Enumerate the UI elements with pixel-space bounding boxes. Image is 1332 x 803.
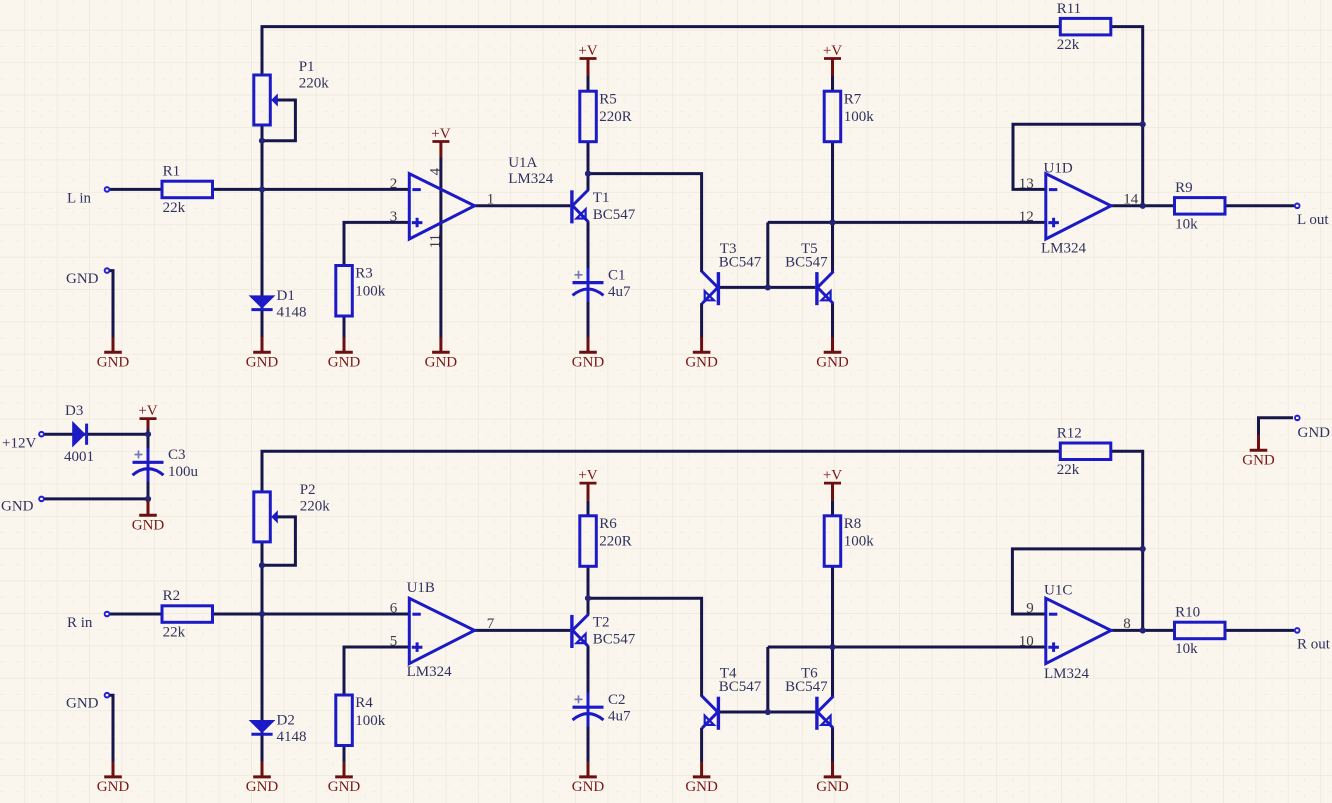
svg-text:7: 7 [487,616,495,632]
capacitor C3 [133,447,199,482]
wire rail L [262,27,1060,75]
ground [1242,435,1275,469]
ground [328,337,361,371]
svg-text:GND: GND [1298,425,1331,441]
wire [213,188,410,191]
diode D2 [249,713,307,745]
svg-text:GND: GND [246,779,279,795]
svg-text:10k: 10k [1175,216,1198,232]
svg-text:9: 9 [1026,600,1034,616]
svg-text:GND: GND [816,779,849,795]
wire [1111,451,1143,630]
svg-text:22k: 22k [163,625,186,641]
node junction [1140,627,1146,633]
wire [1259,418,1294,436]
wire feedback [1013,124,1143,189]
wire [768,646,1046,649]
op-amp U1A [390,155,554,239]
resistor R5 [580,91,632,142]
svg-text:6: 6 [390,600,398,616]
transistor T4 [702,665,762,729]
node junction [259,562,265,568]
node junction [259,138,265,144]
svg-text:+12V: +12V [2,436,36,452]
svg-text:22k: 22k [1057,37,1080,53]
svg-text:8: 8 [1123,616,1131,632]
node junction [585,595,591,601]
svg-text:R3: R3 [355,266,373,282]
ground [685,762,718,796]
transistor T3 [702,241,762,305]
svg-text:L in: L in [67,191,92,207]
transistor T1 [572,190,636,224]
svg-text:4148: 4148 [277,729,307,745]
svg-text:100k: 100k [844,109,875,125]
svg-text:14: 14 [1123,191,1139,207]
svg-text:4001: 4001 [64,449,94,465]
svg-text:22k: 22k [1057,462,1080,478]
supply +V [823,468,842,501]
resistor R3 [336,266,386,317]
svg-text:4u7: 4u7 [608,284,631,300]
svg-text:12: 12 [1019,209,1034,225]
wire [1111,27,1143,206]
svg-text:T2: T2 [593,614,610,630]
node junction [145,496,151,502]
node junction [145,431,151,437]
supply +V [578,468,597,501]
svg-text:220k: 220k [300,498,331,514]
svg-text:4: 4 [427,167,443,175]
svg-text:10: 10 [1019,633,1034,649]
svg-text:U1A: U1A [508,155,537,171]
wire [831,728,834,762]
wire rail R [262,451,1060,492]
ground [246,762,279,796]
wire [831,142,834,272]
wire [110,271,114,338]
svg-text:22k: 22k [163,200,186,216]
svg-text:R out: R out [1297,637,1331,653]
svg-text:5: 5 [390,633,398,649]
wire [343,316,346,337]
node junction [259,186,265,192]
node junction [1140,203,1146,209]
wire [344,647,409,695]
resistor R1 [162,164,213,216]
diode D1 [249,288,307,320]
ground [685,337,718,371]
svg-text:GND: GND [685,779,718,795]
svg-text:P1: P1 [299,59,315,75]
wire [700,303,703,337]
svg-text:100k: 100k [355,713,386,729]
svg-text:220k: 220k [299,76,330,92]
svg-text:LM324: LM324 [508,171,554,187]
wire [110,695,114,762]
wire [766,222,769,287]
node junction [259,611,265,617]
wire [588,174,702,273]
wire L in [110,188,162,191]
wire [587,646,590,762]
node junction [765,284,771,290]
svg-text:GND: GND [246,355,279,371]
svg-text:GND: GND [97,355,130,371]
node junction [585,171,591,177]
wire wiper loop [264,517,296,565]
svg-text:D3: D3 [65,403,83,419]
svg-text:R in: R in [67,615,93,631]
svg-text:GND: GND [66,271,99,287]
wire [588,598,702,697]
svg-text:1: 1 [487,191,495,207]
node junction [1140,121,1146,127]
svg-text:R2: R2 [163,588,181,604]
transistor T5 [785,241,833,305]
svg-text:+V: +V [431,126,450,142]
wire [343,746,346,762]
pin GND [104,692,111,699]
svg-text:R7: R7 [844,91,862,107]
svg-text:C2: C2 [608,692,626,708]
wire [44,433,148,436]
supply +V [823,43,842,76]
supply +V [138,403,157,429]
svg-text:U1C: U1C [1044,583,1072,599]
svg-text:T1: T1 [593,190,610,206]
svg-text:+V: +V [823,43,842,59]
resistor R2 [162,588,213,640]
potentiometer P1 [254,59,329,125]
svg-text:GND: GND [66,696,99,712]
ground [425,337,458,371]
op-amp U1C [1019,583,1131,683]
pin GND in [38,496,45,503]
supply +V [431,126,450,157]
svg-text:GND: GND [685,355,718,371]
svg-text:13: 13 [1019,176,1034,192]
svg-text:BC547: BC547 [593,207,636,223]
pin R in [104,611,111,618]
resistor R11 [1057,1,1111,53]
svg-text:GND: GND [1242,453,1275,469]
node junction [829,219,835,225]
svg-text:BC547: BC547 [719,679,762,695]
wire [700,728,703,762]
pin +12V [38,431,45,438]
op-amp U1D [1019,161,1139,257]
svg-text:C1: C1 [608,267,626,283]
svg-text:GND: GND [572,355,605,371]
svg-text:R11: R11 [1057,1,1081,17]
wire [587,76,590,91]
diode D3 [64,403,94,465]
svg-text:+V: +V [578,468,597,484]
wire [1225,204,1294,207]
svg-text:D1: D1 [277,288,295,304]
wire [831,76,834,91]
resistor R10 [1175,605,1226,657]
svg-text:2: 2 [390,176,398,192]
svg-text:D2: D2 [277,713,295,729]
node junction [829,644,835,650]
ground [572,762,605,796]
svg-text:U1D: U1D [1044,161,1073,177]
wire [147,429,150,448]
svg-text:3: 3 [390,209,398,225]
svg-text:GND: GND [1,499,34,515]
svg-text:GND: GND [97,779,130,795]
ground [97,762,130,796]
wire [831,501,834,516]
svg-text:U1B: U1B [407,580,435,596]
svg-text:BC547: BC547 [785,679,828,695]
wire [587,566,590,615]
wire bases [720,286,815,289]
svg-text:GND: GND [328,355,361,371]
resistor R9 [1175,180,1226,232]
wire [475,204,571,207]
svg-text:GND: GND [816,355,849,371]
svg-text:R12: R12 [1057,425,1082,441]
svg-text:+V: +V [138,403,157,419]
wire [475,629,571,632]
ground [328,762,361,796]
wire [831,303,834,337]
svg-text:100u: 100u [168,464,199,480]
svg-text:LM324: LM324 [407,664,453,680]
svg-text:220R: 220R [599,109,632,125]
svg-text:BC547: BC547 [785,254,828,270]
svg-text:100k: 100k [844,534,875,550]
svg-text:10k: 10k [1175,641,1198,657]
potentiometer P2 [254,482,330,542]
resistor R6 [580,516,632,567]
svg-text:R8: R8 [844,516,862,532]
ground [572,337,605,371]
svg-text:4148: 4148 [277,304,307,320]
wire R in [110,613,162,616]
pin GND [104,267,111,274]
wire trunk [261,125,264,337]
wire feedback [1012,549,1142,614]
wire wiper loop [264,100,296,141]
transistor T2 [572,614,636,648]
resistor R12 [1057,425,1111,477]
resistor R8 [824,516,874,567]
node junction [1140,546,1146,552]
svg-text:LM324: LM324 [1041,241,1087,257]
svg-text:BC547: BC547 [593,631,636,647]
wire trunk [261,542,264,762]
svg-text:4u7: 4u7 [608,709,631,725]
wire [44,497,148,500]
wire [587,142,590,191]
pin R out [1294,627,1301,634]
pin L in [104,186,111,193]
svg-text:R6: R6 [599,516,617,532]
wire [213,613,410,616]
node junction [765,709,771,715]
wire [1111,204,1175,207]
wire [831,566,834,696]
supply +V [578,43,597,76]
ground [132,500,165,534]
capacitor C2 [573,692,632,727]
wire [344,222,409,265]
svg-text:P2: P2 [300,482,316,498]
svg-text:GND: GND [328,779,361,795]
svg-text:GND: GND [425,355,458,371]
capacitor C1 [573,267,632,302]
wire [587,221,590,337]
ground [816,762,849,796]
svg-text:LM324: LM324 [1044,666,1090,682]
svg-text:11: 11 [427,234,443,248]
svg-text:R5: R5 [599,91,617,107]
svg-text:C3: C3 [168,447,186,463]
ground [97,337,130,371]
transistor T6 [785,665,833,729]
resistor R4 [336,695,386,746]
svg-text:BC547: BC547 [719,254,762,270]
svg-text:220R: 220R [599,534,632,550]
svg-text:+V: +V [823,468,842,484]
wire U1A power [439,157,442,337]
op-amp U1B [390,580,495,680]
wire [768,221,1046,224]
resistor R7 [824,91,874,142]
wire [1111,629,1175,632]
svg-text:R10: R10 [1175,605,1200,621]
pin L out [1294,203,1301,210]
svg-text:R9: R9 [1175,180,1193,196]
ground [816,337,849,371]
pin GND right [1294,415,1301,422]
wire [587,501,590,516]
wire bases [720,711,815,714]
svg-text:R1: R1 [163,164,181,180]
svg-text:100k: 100k [355,283,386,299]
svg-text:L out: L out [1297,212,1329,228]
svg-text:R4: R4 [355,695,373,711]
ground [246,337,279,371]
svg-text:+V: +V [578,43,597,59]
wire [766,647,769,712]
svg-text:GND: GND [132,517,165,533]
wire [147,481,150,499]
wire [1225,629,1294,632]
svg-text:GND: GND [572,779,605,795]
